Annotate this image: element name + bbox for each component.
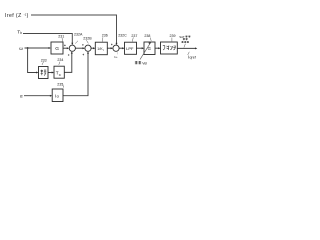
svg-text:Fr: Fr [59,73,62,77]
box sign(fugou) 233 [39,67,49,79]
wire alpha to Io [24,95,51,97]
box 1/Kt 236 [95,42,107,55]
svg-text:232A: 232A [74,33,83,37]
svg-text:b: b [20,31,22,35]
wire 232B to 236 [91,47,94,49]
variable-gain diagonal arrow [140,44,150,60]
svg-text:SAT: SAT [179,35,185,39]
box Io 235 [52,89,63,102]
svg-text:232B: 232B [83,36,92,40]
wire Tb line [23,34,72,44]
wire Iref top line [31,15,117,44]
svg-text:232C: 232C [118,34,127,38]
wire 232C to LPF [119,47,124,49]
kanji 符号 (drawn) [41,70,47,76]
svg-text:231: 231 [58,34,64,38]
wire omega to G [25,47,50,49]
wire G238 to limiter [155,47,160,49]
katakana リミッタ (drawn) [163,46,176,51]
wire 236 to 232C [107,47,112,49]
svg-text:qref: qref [190,55,196,59]
svg-text:237: 237 [131,34,137,38]
svg-text:ω: ω [19,46,23,51]
box Tfr 234 [54,66,64,78]
box G 231 [51,42,63,54]
wire 232A to 232B [75,47,83,49]
summing junction 232C [113,45,119,51]
wire omega branch down to sign box [28,48,38,73]
svg-text:234: 234 [57,58,63,62]
svg-text:236: 236 [102,34,108,38]
summing junction 232A [69,45,75,51]
box LPF 237 [125,42,137,54]
wire Io up to 232B [63,52,88,95]
svg-text:Vel: Vel [142,61,147,65]
wire G to 232A [63,47,68,49]
arrowheads [36,43,197,97]
box limiter 239 [161,42,178,54]
svg-text:233: 233 [41,59,47,63]
svg-text:): ) [27,13,29,19]
wire LPF to G238 [137,47,144,49]
node junction dot on omega line [27,47,29,49]
svg-text:G: G [55,46,59,52]
svg-text:ω: ω [115,55,117,59]
wire sign box to Tfr [48,72,53,74]
annotation vehicle speed Vel [135,61,141,64]
svg-text:235: 235 [57,82,63,86]
wire Tfr up to 232A [64,52,72,72]
svg-text:LPF: LPF [126,46,134,51]
box G 238 (variable gain) [144,42,155,55]
svg-text:Iref (Z: Iref (Z [5,13,22,19]
svg-text:239: 239 [170,34,176,38]
svg-text:238: 238 [144,34,150,38]
wire limiter output [177,47,195,49]
summing junction 232B [85,45,91,51]
